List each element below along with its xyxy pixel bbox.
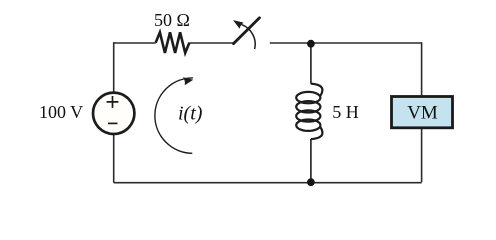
wire: right vertical below VM bbox=[421, 129, 423, 182]
svg-text:100 V: 100 V bbox=[39, 102, 83, 122]
wire: left vertical below source bbox=[113, 135, 115, 183]
wire: left vertical above source bbox=[113, 42, 115, 91]
switch motion arc bbox=[242, 25, 256, 49]
wire: bottom bbox=[114, 182, 422, 184]
voltage source V1 100V circle bbox=[93, 93, 134, 134]
i(t) arrowhead bbox=[183, 77, 193, 85]
junction dot top bbox=[307, 40, 315, 48]
resistor R 50ohm zigzag bbox=[156, 32, 190, 53]
wire: top right from switch to top-right corner bbox=[270, 42, 422, 44]
svg-text:50 Ω: 50 Ω bbox=[154, 10, 190, 30]
junction dot bottom bbox=[307, 178, 315, 186]
inductor L 5H coil bbox=[296, 84, 322, 140]
minus sign bbox=[108, 122, 118, 124]
plus sign bbox=[107, 96, 119, 108]
mesh current arrow i(t) arc bbox=[155, 78, 193, 153]
wire: top left from source to switch bbox=[114, 42, 233, 44]
switch blade bbox=[234, 18, 260, 44]
svg-text:VM: VM bbox=[407, 103, 438, 124]
wire: inductor branch bottom bbox=[310, 139, 312, 182]
switch arrowhead bbox=[233, 20, 244, 29]
voltmeter VM box bbox=[392, 97, 453, 128]
wire: right vertical above VM bbox=[421, 42, 423, 95]
svg-text:5 H: 5 H bbox=[332, 102, 359, 122]
svg-text:i(t): i(t) bbox=[178, 103, 203, 125]
wire: inductor branch top bbox=[310, 44, 312, 84]
